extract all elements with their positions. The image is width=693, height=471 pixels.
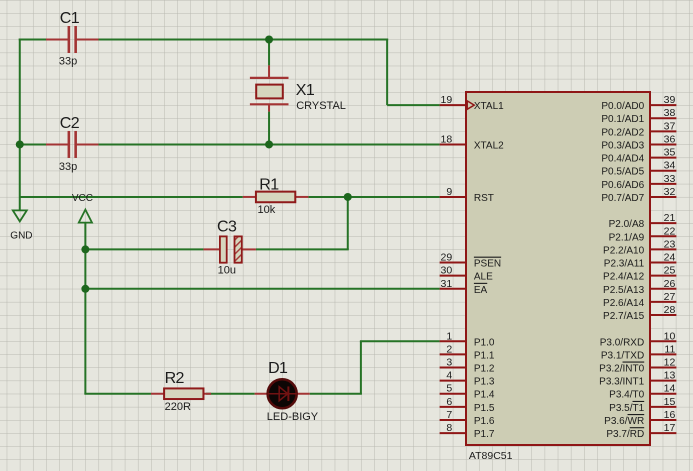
junction node: C2 / crystal bottom / XTAL2 net bbox=[265, 140, 273, 148]
junction node: C1 / crystal top / XTAL1 net bbox=[265, 36, 273, 44]
capacitor C1 bbox=[46, 26, 98, 53]
svg-text:15: 15 bbox=[664, 396, 676, 408]
wire: crystal top connection bbox=[268, 40, 270, 66]
svg-text:4: 4 bbox=[446, 370, 452, 382]
svg-text:P2.4/A12: P2.4/A12 bbox=[603, 272, 645, 283]
svg-text:30: 30 bbox=[441, 265, 453, 277]
svg-text:LED-BIGY: LED-BIGY bbox=[267, 411, 319, 423]
svg-text:XTAL2: XTAL2 bbox=[474, 140, 504, 151]
junction node: left rail / C2 row bbox=[16, 140, 24, 148]
svg-text:P1.0: P1.0 bbox=[474, 337, 495, 348]
pin 36 (P0.3/AD3) stub bbox=[650, 143, 676, 145]
svg-text:10u: 10u bbox=[218, 265, 236, 277]
pin 13 (P3.3/INT1) stub bbox=[650, 380, 676, 382]
svg-text:37: 37 bbox=[664, 120, 676, 132]
svg-text:2: 2 bbox=[446, 343, 452, 355]
pin 4 (P1.3) stub bbox=[440, 380, 466, 382]
pin 15 (P3.5/T1) stub bbox=[650, 406, 676, 408]
svg-text:R2: R2 bbox=[165, 370, 185, 387]
wire: into XTAL1 pin bbox=[387, 104, 439, 106]
svg-text:16: 16 bbox=[664, 409, 676, 421]
svg-text:38: 38 bbox=[664, 107, 676, 119]
svg-text:C2: C2 bbox=[60, 115, 80, 132]
svg-text:RST: RST bbox=[474, 193, 494, 204]
pin 11 (P3.1/TXD) stub bbox=[650, 353, 676, 355]
svg-text:36: 36 bbox=[664, 133, 676, 145]
svg-text:32: 32 bbox=[664, 186, 676, 198]
pin 24 (P2.3/A11) stub bbox=[650, 262, 676, 264]
wire: into P1.0 pin bbox=[360, 340, 440, 342]
wire: riser from LED row up to P1.0 row bbox=[360, 341, 362, 393]
wire: crystal bottom connection bbox=[268, 112, 270, 145]
pin 3 (P1.2) stub bbox=[440, 367, 466, 369]
wire: EA row from VCC rail to EA pin bbox=[85, 288, 439, 290]
svg-text:GND: GND bbox=[10, 230, 32, 241]
wire: vertical from R1 junction down to C3 row bbox=[347, 197, 349, 249]
svg-text:R1: R1 bbox=[259, 177, 279, 194]
svg-text:P3.1/TXD: P3.1/TXD bbox=[601, 350, 644, 361]
svg-text:P1.5: P1.5 bbox=[474, 403, 495, 414]
pin 1 (P1.0) stub bbox=[440, 340, 466, 342]
pin 35 (P0.4/AD4) stub bbox=[650, 157, 676, 159]
pin 17 (P3.7/RD) stub bbox=[650, 432, 676, 434]
wire: C1 row right segment from C1 to top bend bbox=[98, 39, 388, 41]
pin 14 (P3.4/T0) stub bbox=[650, 393, 676, 395]
svg-text:P0.7/AD7: P0.7/AD7 bbox=[601, 193, 644, 204]
svg-text:33p: 33p bbox=[59, 161, 77, 173]
svg-text:P2.0/A8: P2.0/A8 bbox=[609, 219, 645, 230]
wire: VCC rail vertical down to R2 row bbox=[84, 223, 86, 394]
wire: C2/XTAL2 row from C2 to XTAL2 pin bbox=[98, 143, 439, 145]
svg-text:11: 11 bbox=[664, 343, 675, 355]
clock input chevron on XTAL1 bbox=[467, 101, 474, 109]
svg-text:P3.3/INT1: P3.3/INT1 bbox=[599, 377, 644, 388]
svg-text:1: 1 bbox=[446, 330, 452, 342]
svg-text:19: 19 bbox=[441, 94, 453, 106]
svg-text:CRYSTAL: CRYSTAL bbox=[296, 100, 346, 112]
pin 37 (P0.2/AD2) stub bbox=[650, 130, 676, 132]
overline on T1 bbox=[633, 400, 645, 402]
microcontroller U1 AT89C51 body bbox=[466, 92, 650, 445]
svg-text:7: 7 bbox=[446, 409, 452, 421]
svg-text:P1.4: P1.4 bbox=[474, 390, 495, 401]
overline on INT0 bbox=[623, 361, 645, 363]
capacitor C2 bbox=[46, 131, 98, 158]
pin 8 (P1.7) stub bbox=[440, 432, 466, 434]
svg-text:14: 14 bbox=[664, 383, 676, 395]
svg-text:31: 31 bbox=[441, 278, 453, 290]
pin 30 (ALE) stub bbox=[440, 275, 466, 277]
wire: left vertical rail (C1 row down to GND) bbox=[19, 39, 21, 211]
pin 25 (P2.4/A12) stub bbox=[650, 275, 676, 277]
svg-text:P2.1/A9: P2.1/A9 bbox=[609, 232, 645, 243]
ground bbox=[13, 210, 27, 221]
pin 18 (XTAL2) stub bbox=[440, 143, 466, 145]
pin 6 (P1.5) stub bbox=[440, 406, 466, 408]
pin 22 (P2.1/A9) stub bbox=[650, 235, 676, 237]
svg-text:6: 6 bbox=[446, 396, 452, 408]
junction node: VCC rail / C3 row bbox=[81, 245, 89, 253]
pin 16 (P3.6/WR) stub bbox=[650, 419, 676, 421]
svg-text:PSEN: PSEN bbox=[474, 259, 501, 270]
pin 19 (XTAL1) stub bbox=[440, 104, 466, 106]
resistor R2 bbox=[151, 388, 211, 399]
resistor R1 bbox=[243, 192, 309, 203]
pin 31 (EA) stub bbox=[440, 288, 466, 290]
wire: C3 row from VCC rail to C3 bbox=[85, 248, 203, 250]
svg-text:P1.1: P1.1 bbox=[474, 350, 495, 361]
wire: from R2 to LED D1 bbox=[206, 393, 255, 395]
svg-text:P0.0/AD0: P0.0/AD0 bbox=[601, 101, 644, 112]
svg-text:P2.5/A13: P2.5/A13 bbox=[603, 285, 645, 296]
wire: C3 row from C3 to junction vertical bbox=[256, 248, 349, 250]
svg-text:P3.6/WR: P3.6/WR bbox=[604, 416, 644, 427]
svg-text:29: 29 bbox=[441, 252, 453, 264]
svg-text:VCC: VCC bbox=[72, 193, 93, 204]
svg-text:P1.3: P1.3 bbox=[474, 377, 495, 388]
svg-text:27: 27 bbox=[664, 291, 676, 303]
pin 23 (P2.2/A10) stub bbox=[650, 248, 676, 250]
svg-text:P3.4/T0: P3.4/T0 bbox=[609, 390, 644, 401]
svg-text:P3.0/RXD: P3.0/RXD bbox=[600, 337, 644, 348]
svg-text:ALE: ALE bbox=[474, 272, 493, 283]
svg-text:P2.6/A14: P2.6/A14 bbox=[603, 298, 645, 309]
wire: from LED to riser bend bbox=[310, 393, 362, 395]
overline on EA bbox=[474, 282, 487, 284]
svg-text:25: 25 bbox=[664, 265, 676, 277]
svg-text:10k: 10k bbox=[258, 204, 276, 216]
svg-text:220R: 220R bbox=[165, 401, 191, 413]
svg-text:P0.6/AD6: P0.6/AD6 bbox=[601, 180, 644, 191]
pin 27 (P2.6/A14) stub bbox=[650, 301, 676, 303]
svg-text:23: 23 bbox=[664, 238, 676, 250]
svg-text:P3.2/INT0: P3.2/INT0 bbox=[599, 364, 644, 375]
wire: C2 row left segment bbox=[20, 143, 46, 145]
svg-text:33p: 33p bbox=[59, 56, 77, 68]
svg-text:P0.3/AD3: P0.3/AD3 bbox=[601, 140, 644, 151]
svg-text:39: 39 bbox=[664, 94, 676, 106]
wire: C1 row left segment from left vertical to C1 bbox=[19, 39, 46, 41]
pin 28 (P2.7/A15) stub bbox=[650, 314, 676, 316]
svg-text:12: 12 bbox=[664, 357, 676, 369]
svg-text:P2.7/A15: P2.7/A15 bbox=[603, 311, 645, 322]
crystal X1 bbox=[250, 65, 289, 111]
pin 39 (P0.0/AD0) stub bbox=[650, 104, 676, 106]
wire: R2 row from VCC rail to R2 bbox=[84, 393, 151, 395]
svg-text:28: 28 bbox=[664, 304, 676, 316]
svg-text:P0.2/AD2: P0.2/AD2 bbox=[601, 127, 644, 138]
svg-text:C3: C3 bbox=[217, 218, 237, 235]
pin 38 (P0.1/AD1) stub bbox=[650, 117, 676, 119]
svg-text:33: 33 bbox=[664, 173, 676, 185]
svg-text:P1.2: P1.2 bbox=[474, 364, 495, 375]
pin 5 (P1.4) stub bbox=[440, 393, 466, 395]
svg-text:24: 24 bbox=[664, 252, 676, 264]
svg-text:P2.2/A10: P2.2/A10 bbox=[603, 245, 645, 256]
pin 9 (RST) stub bbox=[440, 196, 466, 198]
wire: RST row from left rail to R1 bbox=[20, 196, 243, 198]
overline on WR bbox=[628, 414, 645, 416]
svg-text:5: 5 bbox=[446, 383, 452, 395]
svg-text:P2.3/A11: P2.3/A11 bbox=[604, 259, 645, 270]
svg-text:22: 22 bbox=[664, 225, 676, 237]
svg-text:21: 21 bbox=[664, 212, 676, 224]
svg-text:EA: EA bbox=[474, 285, 488, 296]
overline on PSEN bbox=[474, 256, 501, 258]
svg-text:18: 18 bbox=[441, 133, 453, 145]
wire: RST row from R1 to RST pin bbox=[308, 196, 439, 198]
svg-text:X1: X1 bbox=[296, 82, 315, 99]
svg-text:P0.4/AD4: P0.4/AD4 bbox=[601, 154, 644, 165]
power VCC bbox=[79, 210, 92, 223]
pin 32 (P0.7/AD7) stub bbox=[650, 196, 676, 198]
svg-text:P0.5/AD5: P0.5/AD5 bbox=[601, 167, 644, 178]
svg-text:AT89C51: AT89C51 bbox=[469, 450, 513, 462]
svg-text:17: 17 bbox=[664, 422, 676, 434]
svg-text:9: 9 bbox=[446, 186, 452, 198]
svg-text:P3.5/T1: P3.5/T1 bbox=[609, 403, 644, 414]
junction node: VCC rail / EA row bbox=[81, 285, 89, 293]
LED D1 bbox=[255, 379, 310, 408]
overline on RD bbox=[630, 427, 644, 429]
pin 34 (P0.5/AD5) stub bbox=[650, 170, 676, 172]
pin 10 (P3.0/RXD) stub bbox=[650, 340, 676, 342]
junction node: R1 / C3 / RST net bbox=[344, 193, 352, 201]
svg-text:13: 13 bbox=[664, 370, 676, 382]
svg-text:D1: D1 bbox=[268, 360, 288, 377]
svg-text:C1: C1 bbox=[60, 10, 80, 27]
pin 33 (P0.6/AD6) stub bbox=[650, 183, 676, 185]
pin 12 (P3.2/INT0) stub bbox=[650, 367, 676, 369]
svg-text:P0.1/AD1: P0.1/AD1 bbox=[601, 114, 644, 125]
svg-text:P1.6: P1.6 bbox=[474, 416, 495, 427]
pin 7 (P1.6) stub bbox=[440, 419, 466, 421]
svg-text:XTAL1: XTAL1 bbox=[474, 101, 504, 112]
wire: vertical drop from top bend to XTAL1 row bbox=[386, 39, 388, 106]
svg-text:8: 8 bbox=[446, 422, 452, 434]
svg-text:3: 3 bbox=[446, 357, 452, 369]
svg-text:P3.7/RD: P3.7/RD bbox=[606, 429, 644, 440]
svg-text:26: 26 bbox=[664, 278, 676, 290]
capacitor C3 bbox=[203, 236, 255, 262]
svg-text:10: 10 bbox=[664, 330, 676, 342]
svg-text:P1.7: P1.7 bbox=[474, 429, 495, 440]
pin 29 (PSEN) stub bbox=[440, 262, 466, 264]
pin 21 (P2.0/A8) stub bbox=[650, 222, 676, 224]
pin 2 (P1.1) stub bbox=[440, 353, 466, 355]
svg-text:35: 35 bbox=[664, 147, 676, 159]
svg-text:34: 34 bbox=[664, 160, 676, 172]
pin 26 (P2.5/A13) stub bbox=[650, 288, 676, 290]
